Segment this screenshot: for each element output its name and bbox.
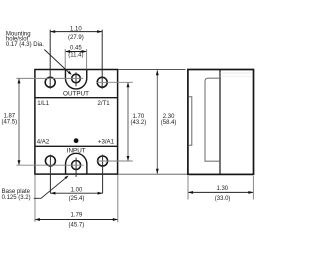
extension line right body edge down [117, 175, 119, 222]
extension line through top-right hole [97, 81, 133, 83]
LED indicator dot [74, 138, 79, 143]
terminal screw hole bottom-left [45, 156, 55, 166]
extension line left body edge down [34, 175, 36, 222]
arrow left 1.00 [50, 192, 55, 195]
terminal screw hole bottom-right [98, 156, 108, 166]
arrow right 1.10 [97, 30, 102, 33]
dim line 0.45 [65, 51, 86, 53]
arrow up 1.70 [127, 82, 130, 87]
arrow left 1.10 [50, 30, 55, 33]
arrow right 1.79 [113, 218, 118, 221]
svg-text:1.30: 1.30 [216, 186, 228, 192]
top slot hole vertical centerline [75, 72, 77, 86]
extension line bottom slot center (crosshair of bottom slot hole) [16, 164, 83, 166]
bottom slot hole circle [72, 161, 81, 170]
relay body outline (front view) [35, 70, 118, 175]
svg-text:(11.4): (11.4) [68, 53, 83, 59]
arrow up 2.30 [156, 70, 159, 75]
leader line to top slot hole [44, 50, 70, 75]
arrow down 2.30 [156, 169, 159, 174]
side view outline [188, 70, 254, 175]
extension line left side view down [187, 176, 189, 200]
svg-text:0.17 (4.3) Dia.: 0.17 (4.3) Dia. [6, 42, 44, 48]
arrow left 0.45 [65, 50, 70, 53]
output terminal strip separator line [35, 97, 118, 99]
extension line top slot center (crosshair of top slot hole) [16, 77, 83, 79]
dim line 1.00 [50, 192, 102, 194]
svg-text:1.79: 1.79 [71, 213, 83, 219]
vertical centerline / extension through bottom-left hole (to 1.00 dim) [49, 155, 51, 194]
dim line 1.70 vertical [127, 82, 129, 161]
dim line 1.79 [35, 219, 118, 221]
side view base plate tab on left edge [189, 97, 192, 145]
dim line 1.30 [188, 191, 253, 193]
top slot hole circle [72, 74, 81, 83]
extension line top (front top edge to side view) [118, 69, 185, 71]
svg-text:1.00: 1.00 [71, 187, 83, 193]
arrow left 1.30 [188, 191, 193, 194]
leader arrowhead [68, 71, 72, 75]
extension line through bottom-right hole [97, 160, 133, 162]
extension line right side view down [252, 176, 254, 200]
terminal screw hole top-left [45, 77, 55, 87]
vertical centerline / extension through top-right hole (from 1.10 dim) [101, 30, 103, 89]
arrow right 1.00 [98, 192, 103, 195]
svg-text:(58.4): (58.4) [161, 120, 177, 126]
arrow up 1.87 [18, 78, 21, 83]
dim line 2.30 vertical [156, 70, 158, 174]
arrow left 1.79 [35, 218, 40, 221]
svg-text:0.45: 0.45 [70, 46, 82, 52]
dim line 1.10 [50, 31, 102, 33]
dim line 1.87 vertical [18, 78, 20, 165]
svg-text:(25.4): (25.4) [69, 196, 85, 202]
arrow down 1.87 [18, 160, 21, 165]
top mounting slot (U-notch) [65, 69, 86, 89]
svg-text:2/T1: 2/T1 [97, 100, 110, 107]
svg-text:(43.2): (43.2) [131, 120, 147, 126]
faint label lines top right [220, 72, 252, 74]
svg-text:4/A2: 4/A2 [37, 139, 50, 146]
bottom slot hole vertical centerline [75, 158, 77, 177]
side view inner housing profile (gray) [205, 78, 220, 161]
arrow right 0.45 [82, 50, 87, 53]
extension line right slot edge [86, 49, 88, 69]
svg-text:+3/A1: +3/A1 [98, 139, 115, 146]
svg-text:(33.0): (33.0) [215, 196, 231, 202]
svg-text:0.125 (3.2): 0.125 (3.2) [2, 195, 31, 201]
svg-text:(47.5): (47.5) [1, 120, 17, 126]
arrow right 1.30 [248, 191, 253, 194]
side view body/flange split line [219, 70, 221, 175]
input terminal strip separator line [35, 145, 118, 147]
extension line bottom (front bottom edge to side view) [118, 173, 187, 175]
bottom mounting slot (U-notch) [66, 153, 87, 174]
arrow down 1.70 [127, 156, 130, 161]
svg-text:1/L1: 1/L1 [37, 100, 49, 107]
vertical centerline / extension through bottom-right hole (to 1.00 dim) [102, 155, 104, 194]
leader arrowhead [64, 176, 68, 180]
svg-text:(45.7): (45.7) [69, 222, 85, 228]
terminal screw hole top-right [97, 77, 107, 87]
leader line to base plate [34, 176, 68, 198]
svg-text:(27.9): (27.9) [68, 35, 84, 41]
vertical centerline / extension through top-left hole (from 1.10 dim) [49, 30, 51, 89]
extension line left slot edge [64, 49, 66, 69]
svg-text:OUTPUT: OUTPUT [63, 91, 89, 98]
